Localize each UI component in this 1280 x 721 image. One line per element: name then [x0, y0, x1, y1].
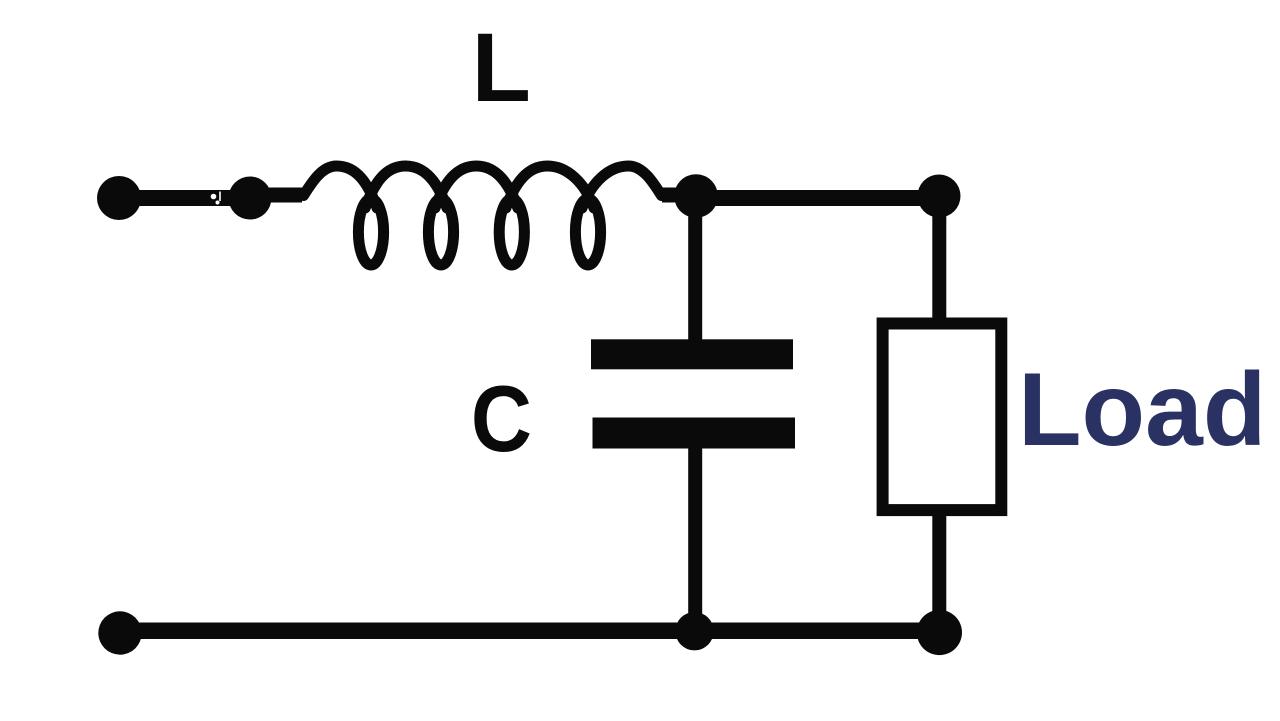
load resistor rectangle — [883, 324, 1002, 511]
terminal dot input top-left — [97, 176, 141, 220]
node A dot (top of capacitor branch) — [674, 174, 718, 218]
junction dot at inductor input — [229, 177, 272, 220]
wire from dot to inductor start — [250, 188, 302, 203]
wire capacitor down to bottom rail — [688, 448, 702, 633]
white arrow artifact on input wire — [211, 194, 217, 200]
terminal dot bottom-left — [98, 611, 141, 654]
capacitor C bottom plate — [593, 418, 796, 449]
wire node B down to load — [932, 196, 946, 321]
wire top horizontal node A to node B — [696, 190, 939, 206]
wire load bottom to bottom rail — [932, 512, 946, 633]
svg-text:L: L — [472, 13, 531, 122]
capacitor C top plate — [591, 339, 793, 369]
wire bottom rail — [120, 623, 940, 640]
wire node A down to capacitor — [688, 196, 702, 341]
node B dot (top of load branch) — [918, 175, 961, 218]
svg-text:Load: Load — [1018, 352, 1266, 468]
wire input top-left — [119, 190, 250, 206]
junction dot bottom right — [917, 610, 962, 655]
junction dot bottom middle — [675, 612, 713, 650]
inductor L coil — [304, 166, 662, 265]
wire from inductor end to node A — [662, 188, 700, 203]
svg-text:C: C — [471, 366, 532, 471]
